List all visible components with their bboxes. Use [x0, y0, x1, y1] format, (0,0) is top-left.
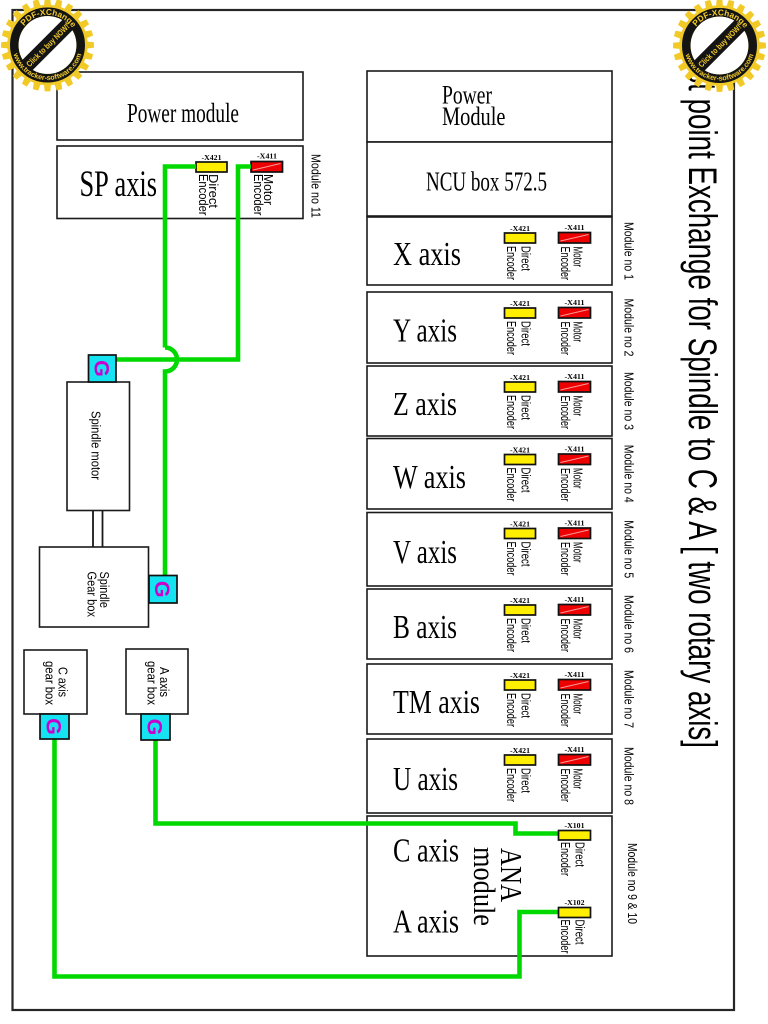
box V axis: [367, 513, 612, 587]
connector -X102 (A axis direct): [559, 908, 591, 918]
svg-text:Encoder: Encoder: [196, 174, 210, 216]
connector -X421 (Z axis): [505, 382, 536, 392]
G encoder (C gearbox): [40, 714, 69, 739]
svg-text:Spindle motor: Spindle motor: [89, 411, 103, 480]
shaft lines: [92, 511, 94, 548]
connector -X421 (Y axis): [505, 308, 536, 318]
connector -X411 (SP motor encoder): [251, 162, 283, 173]
svg-text:TM axis: TM axis: [393, 684, 480, 721]
svg-text:-X411: -X411: [565, 521, 586, 528]
svg-text:-X421: -X421: [202, 155, 223, 162]
svg-text:Direct: Direct: [519, 395, 533, 420]
wire C-gearbox G to X102: [55, 739, 559, 977]
svg-text:SP axis: SP axis: [80, 164, 158, 205]
svg-text:Encoder: Encoder: [558, 694, 572, 728]
svg-text:G: G: [89, 360, 113, 377]
svg-text:-X411: -X411: [565, 374, 586, 381]
svg-text:-X421: -X421: [510, 673, 531, 680]
svg-text:Encoder: Encoder: [504, 768, 518, 802]
svg-text:Encoder: Encoder: [251, 174, 265, 216]
wire A-gearbox G to X101: [156, 740, 559, 834]
svg-text:Encoder: Encoder: [558, 619, 572, 653]
svg-text:Encoder: Encoder: [558, 842, 572, 876]
svg-text:Direct: Direct: [519, 693, 533, 718]
svg-text:Direct: Direct: [519, 321, 533, 346]
svg-text:NCU box 572.5: NCU box 572.5: [426, 167, 547, 197]
svg-text:Module no 8: Module no 8: [622, 747, 636, 805]
svg-text:-X411: -X411: [565, 747, 586, 754]
connector -X421 (TM axis): [505, 680, 536, 690]
svg-text:Encoder: Encoder: [558, 247, 572, 281]
wire direct-encoder SP to gearbox G (with hop): [165, 167, 196, 576]
svg-text:-X411: -X411: [257, 154, 278, 161]
svg-text:Direct: Direct: [519, 768, 533, 793]
svg-text:-X421: -X421: [510, 448, 531, 455]
connector -X421 (W axis): [505, 455, 536, 465]
svg-text:Direct: Direct: [573, 842, 587, 867]
svg-text:B axis: B axis: [393, 609, 457, 646]
svg-text:-X101: -X101: [565, 823, 586, 830]
svg-text:Encoder: Encoder: [504, 693, 518, 727]
svg-text:Module no 5: Module no 5: [622, 520, 636, 578]
svg-text:Direct: Direct: [519, 618, 533, 643]
svg-text:-X421: -X421: [510, 301, 531, 308]
svg-text:Encoder: Encoder: [504, 542, 518, 576]
svg-text:module: module: [467, 847, 502, 926]
connector -X411 (TM axis): [559, 680, 591, 691]
svg-text:Encoder: Encoder: [558, 322, 572, 356]
connector -X411 (W axis): [559, 454, 591, 465]
box X axis: [367, 217, 612, 285]
box C axis gear box: [24, 650, 87, 714]
svg-text:Encoder: Encoder: [504, 321, 518, 355]
svg-text:G: G: [42, 718, 66, 735]
box Z axis: [367, 366, 612, 436]
svg-text:G: G: [150, 581, 174, 598]
box Spindle motor: [67, 382, 130, 511]
svg-text:-X411: -X411: [565, 597, 586, 604]
G encoder (spindle motor): [89, 355, 117, 382]
svg-text:-X421: -X421: [510, 598, 531, 605]
svg-text:Module no 7: Module no 7: [622, 670, 636, 728]
connector -X421 (V axis): [505, 529, 536, 539]
svg-text:Module no 4: Module no 4: [622, 445, 636, 503]
svg-text:Encoder: Encoder: [558, 920, 572, 954]
svg-text:Direct: Direct: [519, 246, 533, 271]
connector -X421 (U axis): [505, 755, 536, 765]
svg-text:C axis: C axis: [56, 667, 70, 697]
svg-text:-X421: -X421: [510, 748, 531, 755]
box ANA module (C/A axis): [367, 816, 612, 956]
box Y axis: [367, 292, 612, 363]
connector -X421 (SP direct encoder): [196, 162, 227, 172]
svg-text:Module no 11: Module no 11: [309, 154, 323, 218]
svg-text:Encoder: Encoder: [558, 542, 572, 576]
box Power Module (right): [367, 71, 612, 142]
connector -X411 (V axis): [559, 528, 591, 539]
svg-text:Module no 2: Module no 2: [622, 299, 636, 357]
box Spindle Gear box: [40, 547, 149, 627]
svg-text:Module no 9 & 10: Module no 9 & 10: [625, 843, 639, 924]
svg-text:Encoder: Encoder: [558, 468, 572, 502]
box U axis: [367, 739, 612, 813]
svg-text:X axis: X axis: [393, 236, 461, 273]
svg-text:Encoder: Encoder: [558, 396, 572, 430]
wire motor-encoder SP to spindle-motor G: [116, 167, 251, 360]
svg-text:Encoder: Encoder: [504, 395, 518, 429]
svg-text:gear box: gear box: [43, 661, 57, 706]
svg-text:V axis: V axis: [393, 534, 457, 571]
svg-text:C axis: C axis: [393, 833, 459, 870]
connector -X411 (B axis): [559, 605, 591, 616]
watermark badge top-right: [673, 0, 766, 92]
svg-text:-X421: -X421: [510, 226, 531, 233]
svg-text:-X411: -X411: [565, 225, 586, 232]
box TM axis: [367, 664, 612, 734]
svg-text:Direct: Direct: [573, 920, 587, 945]
svg-text:Direct: Direct: [519, 542, 533, 567]
svg-text:-X411: -X411: [565, 672, 586, 679]
box SP axis: [57, 146, 303, 219]
G encoder (spindle gearbox): [149, 576, 177, 604]
svg-text:U axis: U axis: [393, 761, 458, 798]
connector -X421 (B axis): [505, 605, 536, 615]
connector -X421 (X axis): [505, 233, 536, 243]
svg-text:-X421: -X421: [510, 522, 531, 529]
svg-text:Module no 1: Module no 1: [622, 222, 636, 280]
svg-text:Encoder: Encoder: [558, 769, 572, 803]
box W axis: [367, 439, 612, 510]
svg-text:Encoder: Encoder: [504, 246, 518, 280]
svg-text:Direct: Direct: [519, 468, 533, 493]
svg-text:-X421: -X421: [510, 375, 531, 382]
box A axis gear box: [126, 649, 188, 714]
connector -X411 (X axis): [559, 233, 591, 244]
svg-text:-X411: -X411: [565, 447, 586, 454]
svg-text:Gear box: Gear box: [85, 572, 99, 618]
box Power module (left): [57, 72, 303, 140]
svg-text:W axis: W axis: [393, 459, 466, 496]
svg-text:A axis: A axis: [393, 904, 459, 941]
svg-text:Encoder: Encoder: [504, 468, 518, 502]
connector -X411 (U axis): [559, 755, 591, 766]
svg-text:Y axis: Y axis: [393, 313, 457, 350]
svg-text:Z axis: Z axis: [393, 386, 457, 423]
box NCU: [367, 142, 612, 216]
svg-text:gear box: gear box: [145, 661, 159, 706]
connector -X101 (C axis direct): [559, 831, 591, 841]
G encoder (A gearbox): [141, 714, 170, 740]
connector -X411 (Z axis): [559, 382, 591, 393]
connector -X411 (Y axis): [559, 308, 591, 319]
svg-text:-X102: -X102: [565, 900, 586, 907]
svg-text:Module no 6: Module no 6: [622, 595, 636, 653]
svg-text:Test point Exchange for Spindl: Test point Exchange for Spindle to C & A…: [680, 40, 724, 748]
watermark badge top-left: [1, 0, 94, 91]
box B axis: [367, 589, 612, 659]
svg-text:-X411: -X411: [565, 300, 586, 307]
svg-text:G: G: [143, 719, 167, 736]
svg-text:Module: Module: [442, 102, 506, 131]
svg-text:Encoder: Encoder: [504, 618, 518, 652]
svg-text:Power module: Power module: [127, 98, 239, 128]
svg-text:Module no 3: Module no 3: [622, 372, 636, 430]
